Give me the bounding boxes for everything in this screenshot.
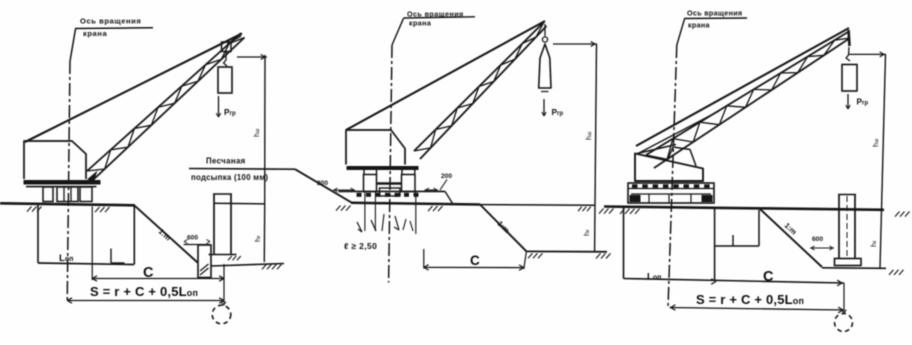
crane 2: height dim line lower [594, 205, 596, 252]
crane 1: wall footing hatch [228, 256, 232, 260]
crane 3: ground hatch far left [599, 209, 604, 214]
crane 1: pedestal inner vertical 1 [63, 187, 65, 202]
svg-text:hш: hш [873, 138, 880, 147]
crane 2: label leader [392, 18, 404, 45]
crane 2: back stay rope [346, 21, 545, 130]
crane 1: height dimension line upper segment [264, 55, 266, 204]
crane 2: ballast right slope [445, 191, 453, 203]
crane 1: support block left [43, 187, 53, 202]
crane 2: portal legs [363, 170, 365, 175]
crane 1: load force arrow [218, 96, 220, 117]
crane 2: load force arrow [543, 99, 545, 116]
crane 1: S dimension line [67, 300, 224, 302]
crane 3: 600 dim line [810, 247, 834, 249]
crane 1: building wall left line [213, 194, 215, 254]
svg-text:200: 200 [441, 173, 452, 180]
crane 3: ground hatch near crane [620, 209, 625, 214]
svg-text:подсыпка (100 мм): подсыпка (100 мм) [191, 173, 268, 182]
crane 1: hook [224, 52, 228, 66]
crane 1: dim top tick to apex [237, 56, 267, 58]
crane 3: pit bottom hatch [889, 270, 894, 275]
crane 2: 200 dim right line [425, 189, 439, 191]
crane 3: turntable ring bar [628, 188, 714, 190]
crane 3: height dim line upper [882, 54, 886, 209]
crane 1: boom upper chord [87, 33, 241, 171]
crane 3: ground hatch right end [895, 212, 900, 217]
crane 3: back stay rope [636, 28, 849, 146]
crane 1: hoist rope from tip [227, 36, 241, 44]
crane 2: boom lower chord [420, 26, 547, 159]
crane 2: gauge extension line left [364, 192, 366, 231]
crane 1: boom lower chord [93, 38, 245, 181]
crane 1: footing column in pit [198, 245, 211, 278]
crane 3: C dim arrows [711, 282, 716, 285]
crane 3: bench right wall [758, 210, 760, 246]
crane 2: bogie left [364, 175, 377, 192]
crane 1: footing top tick [184, 244, 210, 246]
crane 2: height dim line upper [595, 44, 597, 205]
svg-text:1:m: 1:m [157, 227, 173, 243]
crane 3: hook [846, 47, 850, 61]
crane 1: excavation slope 1:m [135, 206, 198, 263]
crane 3: excavation slope 1:m [760, 209, 822, 267]
crane 2: center ballast box [380, 188, 401, 196]
crane 2: pit bottom hatch left [528, 253, 533, 258]
crane 1: building wall right line [230, 194, 232, 254]
svg-text:Ось вращения: Ось вращения [80, 17, 141, 26]
crane 2: label underline [404, 17, 476, 18]
crane 3: label underline [684, 17, 747, 20]
crane 3: boom heel bracket on roof [667, 147, 696, 166]
crane 2: ground line [351, 203, 480, 205]
crane 3: foundation bottom + C dimension line [624, 279, 845, 284]
crane 1: arrow into position circle [221, 302, 223, 306]
svg-text:hк: hк [584, 229, 591, 236]
crane 3: column left line [838, 195, 840, 259]
crane 3: height dim line lower [880, 210, 882, 268]
crane 3: hoist rope hanger [849, 30, 850, 46]
crane 1: support pedestal center [57, 187, 78, 202]
svg-text:C: C [470, 253, 480, 268]
crane 3: foundation left wall [623, 207, 625, 279]
crane 3: boom lattice zigzag [646, 38, 850, 159]
svg-text:Ось вращения: Ось вращения [687, 9, 742, 18]
crane 3: ground line [604, 207, 884, 210]
crane 1: C dimension extension left [91, 207, 93, 281]
crane 1: pit bottom hatch right [262, 264, 267, 269]
crane 3: bench tick [732, 235, 734, 246]
crane 2: hook ring [542, 37, 547, 42]
crane 2: load bucket (teardrop) [539, 44, 551, 88]
crane 1: ground hatch left [27, 207, 32, 212]
svg-text:крана: крана [83, 29, 107, 38]
crane 3: track block left [630, 195, 641, 202]
crane 1: bench notch horizontal [111, 262, 125, 264]
svg-text:600: 600 [187, 235, 198, 242]
crane 2: load bottom tick [541, 91, 549, 93]
sand bedding label underline / upper ground line [189, 168, 295, 171]
svg-text:200: 200 [317, 180, 328, 187]
crane 3: column center dash line [846, 196, 848, 257]
crane 2: bogie right [402, 175, 416, 192]
crane 2: C dim extension left [423, 249, 425, 269]
crane 1: foundation pit left wall [37, 204, 39, 263]
crane 2: excavation slope 1:m [480, 205, 527, 252]
crane 3: boom upper chord [646, 32, 848, 155]
crane 3: track inner vertical 2 [668, 194, 670, 203]
svg-text:C: C [763, 269, 774, 285]
crane 3: turntable outer frame [628, 183, 714, 203]
crane 2: C dim extension right [524, 252, 527, 269]
svg-text:Pгр: Pгр [857, 98, 869, 107]
crane 1: axis of rotation (dash-dot vertical) [67, 61, 70, 302]
crane 2: platform bar [347, 166, 419, 170]
crane 3: axis of rotation dash-dot [668, 45, 677, 308]
crane 3: cab body [635, 154, 703, 182]
crane 2: ground hatch left [336, 206, 341, 211]
crane 2: axis of rotation dash-dot [389, 45, 392, 283]
crane 1: label underline [75, 27, 153, 30]
crane 1: C dimension line [92, 278, 224, 280]
crane 2: cab body [346, 130, 405, 165]
crane 1: support block right [80, 187, 92, 202]
crane 1: height dimension line lower segment [263, 204, 265, 262]
crane 3: arrow into position circle [842, 310, 844, 314]
crane 3: track block right [702, 195, 713, 202]
svg-text:крана: крана [409, 19, 432, 28]
crane 3: load force arrow [847, 94, 849, 109]
crane 2: gauge arrow scribbles [357, 222, 362, 232]
crane 1: wall footing line [209, 254, 237, 256]
crane 1: back stay rope [25, 34, 242, 143]
crane 3: roof far edge (perspective) [635, 145, 676, 155]
crane 2: C dimension line [424, 266, 524, 268]
crane 1: foundation pit right wall [133, 206, 135, 265]
crane 1: ground hatch right [95, 207, 100, 212]
crane 3: column footing pad [835, 259, 862, 266]
crane 1: ground line [0, 203, 135, 205]
svg-text:крана: крана [688, 21, 711, 30]
crane 2: 200 dim left line [333, 189, 355, 191]
crane 1: ground line right of pit [214, 202, 265, 205]
crane 3: track inner vertical 1 [648, 194, 650, 203]
crane 1: pedestal inner vertical 2 [70, 187, 72, 202]
svg-text:ℓ ≥ 2,50: ℓ ≥ 2,50 [344, 241, 377, 251]
svg-text:600: 600 [812, 236, 823, 243]
crane 2: pit bottom [527, 250, 608, 252]
svg-text:Песчаная: Песчаная [206, 157, 246, 166]
crane 3: short pendant rope [639, 111, 719, 153]
crane 2: 200 dim right leader [440, 180, 447, 191]
crane 1: foundation pit bottom [38, 263, 134, 265]
crane 3: label leader [677, 19, 685, 45]
crane 3: dim top tick [849, 53, 886, 55]
crane 1: load box [218, 67, 232, 93]
crane 1: building wall cap [213, 193, 232, 195]
crane 2: ground hatch right [428, 206, 433, 211]
svg-text:1:m: 1:m [783, 221, 799, 237]
crane 1: crane position dashed circle [212, 305, 231, 324]
crane 3: bench horizontal [715, 245, 759, 247]
svg-text:hк: hк [871, 240, 878, 247]
crane 3: column cap [838, 194, 856, 196]
crane 2: dim top tick [553, 43, 597, 45]
crane 1: boom lattice zigzag [87, 38, 245, 172]
svg-text:hк: hк [255, 235, 262, 242]
crane 3: C-S right connector [843, 283, 845, 312]
crane 2: ballast top line [339, 190, 446, 192]
crane 2: gauge extension line mid [374, 192, 376, 231]
crane 2: ground ref hatch [578, 207, 582, 211]
crane 3: track inner vertical 3 [690, 194, 692, 203]
crane 3: pit bottom [822, 267, 886, 270]
svg-text:hш: hш [254, 128, 261, 137]
crane 2: hoist rope [544, 24, 546, 36]
crane 3: load box [842, 65, 857, 92]
svg-text:Lоп: Lоп [59, 253, 73, 264]
crane 3: turntable lower bar [631, 193, 711, 195]
svg-text:hш: hш [586, 131, 593, 140]
svg-text:C: C [143, 265, 154, 281]
svg-text:Pгр: Pгр [552, 108, 564, 117]
crane 1: counterweight cab body [24, 141, 86, 179]
crane 3: crane position dashed circle [835, 314, 853, 332]
crane 3: S dimension line [670, 308, 844, 311]
crane 1: 600 dim ticks [184, 240, 188, 242]
crane 2: axle crossbar [377, 182, 403, 184]
crane 2: rail-sleepers [357, 193, 362, 197]
crane 2: pit bottom hatch right [596, 253, 601, 258]
crane 1: footing column hatch [200, 264, 209, 271]
crane 1: boom heel gusset [87, 171, 98, 182]
svg-text:S = r + C + 0,5Lоп: S = r + C + 0,5Lоп [696, 292, 804, 307]
crane 2: boom upper chord [414, 22, 544, 151]
crane 1: platform bar [24, 180, 101, 185]
crane 1: bench notch vertical [110, 249, 112, 264]
crane 3: column right line [854, 195, 856, 259]
svg-text:Pгр: Pгр [224, 108, 236, 117]
crane 3: foundation right wall [714, 208, 716, 281]
crane 1: label leader [70, 29, 76, 61]
crane 3: slewing ring segments [632, 184, 638, 188]
crane 2: boom lattice zigzag [414, 22, 544, 151]
crane 2: ground reference line over pit to dim line [480, 204, 595, 207]
crane 3: boom lower chord [654, 38, 850, 168]
crane 1: bogie frame line [26, 186, 97, 188]
svg-text:Lоп: Lоп [647, 272, 661, 283]
crane 1: pulley block [222, 42, 232, 52]
crane 1: pit bottom right segment [211, 264, 284, 267]
crane 2: slope from upper ground [295, 169, 352, 203]
crane 1: C dimension extension right [223, 264, 225, 304]
svg-text:S = r + C + 0,5Lоп: S = r + C + 0,5Lоп [90, 284, 198, 299]
crane 2: gauge extension line right [415, 192, 417, 234]
